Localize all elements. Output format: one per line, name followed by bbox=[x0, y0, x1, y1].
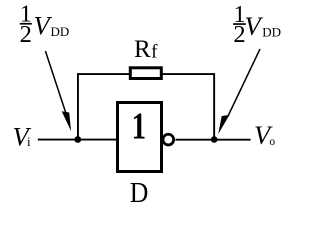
svg-text:2: 2 bbox=[20, 21, 32, 48]
svg-text:o: o bbox=[269, 136, 275, 148]
svg-text:D: D bbox=[130, 177, 149, 208]
svg-text:DD: DD bbox=[262, 25, 281, 40]
svg-text:1: 1 bbox=[132, 106, 146, 148]
svg-text:DD: DD bbox=[51, 24, 70, 39]
svg-text:R: R bbox=[134, 36, 151, 63]
svg-text:f: f bbox=[151, 42, 158, 63]
svg-text:i: i bbox=[27, 134, 31, 149]
svg-text:V: V bbox=[245, 11, 264, 41]
